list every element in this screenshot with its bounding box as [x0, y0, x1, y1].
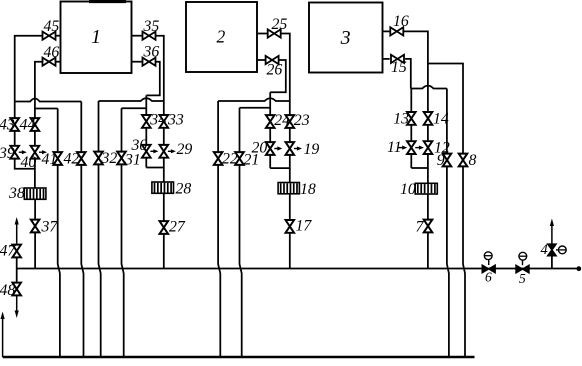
- wire col 23-19 join stem heater18: [270, 101, 290, 268]
- svg-text:13: 13: [393, 111, 409, 128]
- valve 48: [0, 282, 21, 299]
- wire col valve 41: [58, 109, 60, 358]
- svg-text:18: 18: [300, 181, 316, 198]
- wire box1 to valve 36: [132, 61, 143, 63]
- valve 25: [268, 16, 288, 38]
- valve 30: [131, 137, 159, 158]
- valve 13: [393, 111, 415, 128]
- node main right end: [576, 266, 581, 271]
- valve 17: [286, 218, 313, 235]
- valve 9: [437, 152, 452, 169]
- valve 21: [235, 152, 259, 169]
- svg-text:29: 29: [177, 141, 193, 158]
- wire valve16 riser col 14-12 stem heater10: [404, 31, 428, 268]
- wire col valve 32: [99, 101, 101, 357]
- valve 26: [266, 56, 283, 79]
- drain arrow below valve 48: [15, 295, 19, 318]
- wire col valve 22: [218, 101, 220, 357]
- valve 43: [0, 117, 19, 134]
- valve 7: [416, 219, 433, 236]
- svg-text:27: 27: [169, 219, 186, 236]
- valve 35: [143, 18, 160, 40]
- wire box2 to valve 25: [257, 33, 268, 35]
- svg-text:32: 32: [101, 150, 118, 167]
- svg-text:16: 16: [393, 13, 409, 30]
- valve 11: [387, 139, 416, 156]
- svg-text:2: 2: [217, 26, 226, 46]
- svg-text:37: 37: [41, 219, 59, 236]
- svg-text:31: 31: [124, 152, 141, 169]
- svg-text:5: 5: [519, 271, 526, 286]
- svg-text:9: 9: [437, 152, 445, 169]
- valve 45: [43, 18, 60, 40]
- valve 8: [459, 152, 477, 169]
- wire col valve 21: [240, 108, 242, 357]
- wire col valve 9: [447, 89, 449, 358]
- svg-text:7: 7: [416, 219, 425, 236]
- wire lower header g2: [122, 107, 147, 109]
- svg-text:21: 21: [244, 152, 260, 169]
- svg-text:4: 4: [541, 242, 548, 258]
- arrow above valve 4: [550, 219, 554, 245]
- heater 18: [278, 181, 316, 198]
- svg-text:23: 23: [294, 112, 310, 129]
- svg-text:38: 38: [8, 185, 25, 202]
- svg-text:42: 42: [64, 151, 80, 168]
- valve 37: [31, 219, 59, 236]
- wire col valve 31: [122, 108, 124, 357]
- valve 41: [42, 151, 63, 168]
- wire lower header g1: [35, 108, 58, 110]
- valve 19: [286, 141, 320, 158]
- valve 47: [0, 243, 21, 260]
- wire col 34-30: [145, 95, 147, 167]
- valve 46: [43, 44, 60, 66]
- vent arrow above valve 47: [15, 217, 19, 243]
- svg-text:15: 15: [391, 59, 407, 76]
- wire bottom supply main: [3, 356, 475, 359]
- valve 14: [424, 111, 449, 128]
- box 3: [309, 3, 383, 73]
- svg-text:26: 26: [267, 62, 283, 79]
- wire valve26 riser step: [270, 60, 286, 92]
- valve 29: [160, 141, 193, 158]
- wire col 13-11: [410, 89, 412, 169]
- svg-text:46: 46: [44, 44, 60, 61]
- valve 27: [160, 219, 186, 236]
- valve 39: [0, 145, 27, 162]
- heater 28: [152, 181, 191, 198]
- wire col valve 42: [81, 102, 83, 358]
- svg-text:1: 1: [91, 26, 101, 48]
- wire lower header g3: [240, 107, 271, 109]
- svg-text:6: 6: [485, 270, 492, 285]
- valve 32: [94, 150, 117, 167]
- valve 4: [541, 242, 567, 258]
- box 1: [61, 2, 132, 74]
- valve 33: [160, 112, 184, 129]
- svg-text:14: 14: [433, 111, 449, 128]
- wire col valve 48: [16, 269, 18, 284]
- valve 22: [214, 151, 238, 168]
- wire box1 to valve 46: [55, 61, 60, 63]
- svg-text:40: 40: [21, 154, 37, 171]
- svg-text:41: 41: [42, 151, 58, 168]
- wire valve25 riser: [281, 34, 290, 102]
- valve 5: [516, 252, 529, 286]
- svg-text:17: 17: [296, 218, 313, 235]
- wire col valve 47: [16, 243, 18, 268]
- valve 15: [391, 55, 407, 76]
- wire valve15 riser: [405, 59, 411, 89]
- svg-text:47: 47: [0, 243, 16, 260]
- heater 38: [8, 185, 46, 202]
- svg-text:48: 48: [0, 282, 15, 299]
- wire upper header g1 (hop over col44): [15, 99, 82, 102]
- wire box3 to valve 15: [383, 58, 390, 60]
- svg-text:19: 19: [304, 141, 320, 158]
- svg-text:39: 39: [0, 145, 15, 162]
- svg-text:25: 25: [272, 16, 288, 33]
- svg-text:33: 33: [167, 112, 184, 129]
- svg-text:28: 28: [176, 181, 192, 198]
- box 2: [186, 2, 257, 72]
- wire box1 to valve 45: [55, 35, 60, 37]
- valve 6: [482, 252, 495, 285]
- wire supply main up arrow: [1, 312, 5, 358]
- wire box2 to valve 26: [257, 59, 265, 61]
- wire valve36 riser step: [146, 62, 160, 96]
- svg-text:45: 45: [44, 18, 60, 35]
- wire valve35 riser: [155, 36, 163, 101]
- svg-text:43: 43: [0, 117, 15, 134]
- valve 31: [117, 152, 141, 169]
- svg-text:36: 36: [143, 44, 160, 61]
- svg-text:35: 35: [143, 18, 160, 35]
- wire col 24-20: [269, 92, 271, 168]
- wire header g4 (hop over col14): [411, 86, 447, 89]
- valve 20: [252, 140, 283, 157]
- valve 24: [266, 112, 290, 129]
- wire col valve 4: [551, 256, 553, 269]
- valve 44: [20, 117, 40, 134]
- wire valve46 riser / col 44-40-heater38: [35, 62, 43, 269]
- wire valve45 riser / col 43-39: [15, 36, 43, 169]
- valve 40: [21, 146, 48, 171]
- wire upper header g2 (hop over col34): [99, 98, 164, 101]
- wire col 33-29 join stem heater28: [146, 101, 164, 268]
- wire branch to col valve 8: [428, 64, 465, 358]
- wire box3 to valve 16: [383, 30, 390, 32]
- valve 36: [143, 44, 160, 66]
- wire upper header g3 (hop over col24): [218, 98, 290, 101]
- svg-text:10: 10: [400, 181, 416, 198]
- valve 42: [64, 151, 86, 168]
- svg-text:3: 3: [340, 27, 351, 49]
- valve 23: [286, 112, 310, 129]
- svg-text:44: 44: [20, 117, 36, 134]
- heater 10: [400, 181, 437, 198]
- valve 16: [390, 13, 409, 36]
- svg-text:8: 8: [469, 152, 477, 169]
- valve 34: [142, 112, 166, 129]
- wire box1 to valve 35: [132, 35, 143, 37]
- wire condensate main: [17, 268, 579, 270]
- valve 12: [415, 140, 450, 157]
